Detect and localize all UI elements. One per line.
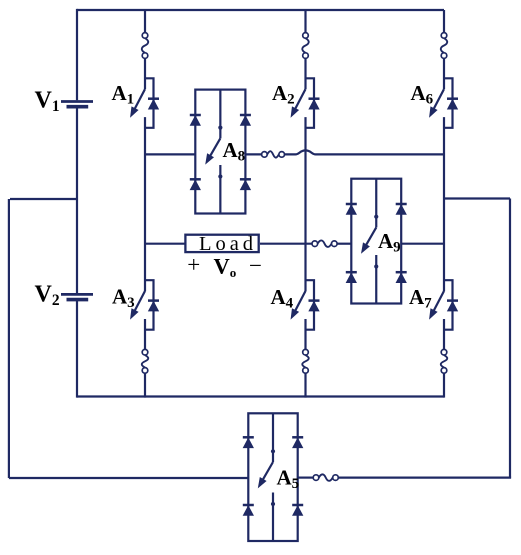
wire top bus (77, 9, 444, 11)
switch A8 blade (208, 138, 220, 159)
diode A1 antiparallel (148, 97, 159, 100)
diode A8 upper-right (240, 114, 251, 117)
switch A6 blade with arrow (432, 89, 444, 113)
diode A9 lower-left (346, 271, 357, 274)
wire branch3 A6-A7 (443, 117, 445, 291)
diode A5 lower-left (243, 504, 254, 507)
switch A4 blade with arrow (293, 291, 305, 315)
switch A3 diode bracket (145, 280, 154, 330)
connector S8 squiggle (267, 151, 279, 157)
svg-text:+: + (187, 252, 200, 277)
diode A2 antiparallel (309, 97, 320, 100)
diode A8 lower-left (190, 178, 201, 181)
svg-text:A5: A5 (277, 466, 300, 493)
wire left rail upper (V1 top) (76, 9, 78, 100)
switch A2 blade with arrow (293, 89, 305, 113)
wire A5 right feed (338, 477, 511, 479)
bridge A8 outline (195, 90, 245, 214)
connector S1 top squiggle (142, 38, 148, 53)
diode A8 upper-left (190, 114, 201, 117)
svg-text:A6: A6 (411, 81, 434, 108)
connector S5 squiggle (319, 474, 333, 480)
wire far-right rail (509, 199, 511, 478)
diode A9 lower-right (396, 271, 407, 274)
connector S2 top squiggle (302, 38, 308, 53)
wire A9 right feed (401, 243, 444, 245)
switch A5 top contact (272, 413, 274, 462)
svg-text:A4: A4 (271, 285, 294, 312)
wire far-left tap (10, 198, 77, 200)
svg-text:−: − (249, 253, 262, 278)
diode A5 upper-left (243, 436, 254, 439)
svg-text:A8: A8 (223, 138, 246, 165)
wire A5 left feed (9, 477, 248, 479)
svg-text:V1: V1 (35, 88, 60, 116)
switch A8 bottom contact (219, 165, 221, 214)
wire branch2 top stub (304, 10, 306, 33)
wire load to A9 (337, 243, 351, 245)
wire load left (145, 243, 185, 245)
bridge A9 outline (351, 179, 401, 304)
wire bottom bus (77, 395, 444, 397)
wire branch2 to A2 (304, 58, 306, 89)
switch A4 diode bracket (306, 280, 315, 330)
wire branch3 to A6 (443, 58, 445, 89)
switch A5 blade (261, 462, 273, 483)
wire right tap (444, 197, 510, 199)
switch A6 diode bracket (444, 78, 453, 128)
diode A9 upper-right (396, 203, 407, 206)
diode A6 antiparallel (447, 97, 458, 100)
diode A9 upper-left (346, 203, 357, 206)
switch A8 top contact (219, 90, 221, 139)
switch A2 diode bracket (306, 78, 315, 128)
diode A3 antiparallel (148, 299, 159, 302)
wire branch1 top stub (144, 10, 146, 33)
wire branch2 A2-A4 (304, 117, 306, 291)
wire branch3 top stub (443, 10, 445, 33)
svg-text:V2: V2 (35, 281, 60, 309)
wire branch1 A1-A3 (144, 117, 146, 291)
switch A9 bottom contact (375, 255, 377, 304)
svg-text:A9: A9 (378, 229, 401, 256)
wire branch2 below A4 (304, 319, 306, 349)
switch A9 top contact (375, 179, 377, 228)
diode A7 antiparallel (447, 299, 458, 302)
wire left rail lower (V2 bottom) (76, 301, 78, 398)
load box (185, 235, 258, 252)
connector S3 bottom squiggle (142, 355, 148, 368)
diode A5 lower-right (292, 504, 303, 507)
svg-text:A3: A3 (112, 285, 135, 312)
wire branch3 to bus (443, 373, 445, 398)
battery V1 (61, 100, 93, 103)
wire branch3 below A7 (443, 319, 445, 349)
wire A5 right to squiggle (298, 477, 314, 479)
wire A8 right feed (245, 153, 261, 155)
switch A1 blade with arrow (133, 89, 145, 113)
switch A5 bottom contact (272, 493, 274, 542)
wire branch1 to A1 (144, 58, 146, 89)
wire load right (260, 243, 312, 245)
connector S6 top squiggle (441, 38, 447, 53)
diode A4 antiparallel (309, 299, 320, 302)
wire branch1 to bus (144, 373, 146, 398)
svg-text:A7: A7 (409, 285, 432, 312)
wire A8 bus hop over branch2 (285, 150, 445, 154)
switch A1 diode bracket (145, 78, 154, 128)
svg-text:A1: A1 (112, 81, 135, 108)
switch A3 blade with arrow (133, 291, 145, 315)
diode A5 upper-right (292, 436, 303, 439)
battery V2 (61, 293, 93, 296)
svg-text:Vo: Vo (214, 253, 237, 280)
diode A8 lower-right (240, 178, 251, 181)
wire A8 left feed (145, 153, 195, 155)
wire branch1 below A3 (144, 319, 146, 349)
wire branch2 to bus (304, 373, 306, 398)
svg-text:A2: A2 (272, 81, 295, 108)
switch A9 blade (364, 227, 376, 248)
connector S-load squiggle (318, 240, 332, 246)
switch A7 diode bracket (444, 280, 453, 330)
wire far-left rail (8, 199, 10, 478)
connector S4 bottom squiggle (302, 355, 308, 368)
connector S7 bottom squiggle (441, 355, 447, 368)
bridge A5 outline (248, 413, 297, 541)
switch A7 blade with arrow (432, 291, 444, 315)
wire left rail mid (V1-V2) (76, 108, 78, 293)
